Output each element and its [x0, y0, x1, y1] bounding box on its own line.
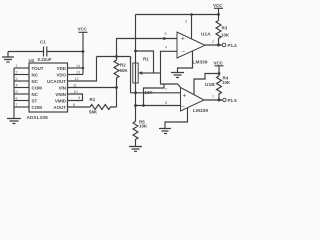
wire LM339 GND pin from U1A to ground: [178, 51, 193, 72]
wire AOUT pin 8 to R1: [68, 106, 91, 108]
svg-text:VDO: VDO: [56, 72, 66, 77]
svg-text:R2: R2: [120, 63, 126, 68]
node R4 / output junction: [218, 99, 221, 102]
op-amp U1B: [181, 82, 216, 113]
wire pin6 jog up-over to U1A minus rail: [144, 84, 165, 106]
wire rail corner down to pot R1 pot / down-col: [130, 57, 132, 64]
op-amp U1A: [177, 32, 211, 65]
capacitor C1: [38, 40, 52, 63]
wire R2 top up-over to pot line: [117, 39, 178, 57]
node R2 bottom junction: [115, 86, 118, 89]
U2 right pin stubs: [68, 68, 84, 101]
svg-text:U1B: U1B: [205, 82, 215, 87]
wire UCAOUT pin 12 up to R2 top rail: [68, 57, 97, 82]
node on U1A plus wire: [163, 37, 166, 40]
resistor R1 56K (horizontal): [89, 97, 117, 115]
svg-text:8: 8: [73, 103, 75, 107]
svg-text:NC: NC: [32, 92, 39, 97]
node R3 / output junction: [217, 44, 220, 47]
svg-text:COM: COM: [32, 85, 43, 90]
resistor R4 10K (vertical pull-up): [217, 76, 231, 101]
ground G2 below U2 left bus: [7, 119, 21, 124]
node pot top / wiper loop junction: [134, 50, 137, 53]
wire LM339 U1B VCC jog: [194, 74, 219, 95]
svg-text:NC: NC: [32, 79, 39, 84]
svg-text:R1: R1: [90, 97, 96, 102]
wire pot column (vertical x135.5 from rail to R5): [135, 15, 137, 122]
svg-text:U2: U2: [29, 58, 35, 63]
svg-text:AOUT: AOUT: [53, 105, 66, 110]
svg-text:10K: 10K: [221, 33, 230, 38]
terminal P1.5: [223, 98, 238, 103]
wire ground to C1: [8, 51, 44, 53]
svg-text:4: 4: [16, 84, 18, 88]
ground G3: [171, 73, 184, 78]
svg-text:COM: COM: [32, 105, 43, 110]
wire VCC to VDD pins: [82, 52, 84, 75]
svg-text:11: 11: [73, 84, 77, 88]
U2 left pin numbers: [16, 64, 18, 107]
node VDD pin junction: [82, 67, 84, 69]
svg-text:50K: 50K: [120, 68, 129, 73]
svg-text:5: 5: [16, 90, 18, 94]
ground G1 top-left: [2, 52, 14, 63]
potentiometer R1 (pot) body: [133, 57, 149, 84]
wire U1B output to P1.5: [204, 99, 223, 101]
power VCC symbol (left, above C1 wire): [78, 27, 88, 52]
power VCC symbol bottom right: [214, 61, 224, 77]
svg-text:1: 1: [212, 95, 214, 99]
svg-text:−: −: [181, 103, 185, 110]
svg-text:ST: ST: [32, 98, 38, 103]
svg-text:VMID: VMID: [55, 98, 67, 103]
wire LM339 VCC pin 3 to rail: [191, 15, 193, 39]
svg-text:1: 1: [16, 64, 18, 68]
wire LM339 GND pin from U1B to ground: [165, 108, 188, 128]
node VCC2 junction: [218, 72, 221, 75]
svg-text:4: 4: [165, 46, 167, 50]
wire pot column to U1B minus (pin 6): [136, 105, 181, 107]
svg-text:VCC: VCC: [78, 27, 88, 32]
svg-text:10K: 10K: [145, 90, 154, 95]
svg-text:UCAOUT: UCAOUT: [47, 79, 66, 84]
ground G5: [159, 129, 171, 134]
svg-text:P1.5: P1.5: [228, 98, 238, 103]
svg-text:VNIN: VNIN: [55, 92, 66, 97]
svg-text:9: 9: [78, 96, 80, 100]
node VCC rail / R3 junction: [217, 13, 220, 16]
svg-text:LM339: LM339: [193, 60, 208, 65]
resistor R3 10K (vertical pull-up): [216, 21, 230, 46]
potentiometer wiper arrow: [138, 71, 142, 74]
svg-text:R3: R3: [222, 26, 228, 31]
svg-text:VDD: VDD: [57, 66, 67, 71]
svg-text:LM339: LM339: [193, 108, 208, 113]
wire C1 to VCC node: [47, 51, 83, 53]
resistor R2 50K (vertical): [114, 57, 128, 88]
U2 right pin names: [47, 66, 67, 110]
svg-text:P1.4: P1.4: [228, 43, 238, 48]
svg-text:12: 12: [75, 77, 79, 81]
node VCC/C1 junction: [82, 50, 85, 53]
U2 left pin names: [32, 66, 44, 110]
svg-text:VCC: VCC: [214, 61, 224, 66]
svg-text:7: 7: [16, 103, 18, 107]
resistor R5 10K (vertical to ground): [133, 120, 148, 147]
wire left pin bus: [13, 68, 15, 118]
wire top rail VCC (y14.5): [136, 14, 219, 16]
wire R2 top rail (horizontal y56.5): [97, 56, 131, 58]
wire U1A output to P1.4: [205, 44, 222, 46]
IC U2 ADXL105 body: [27, 58, 68, 120]
svg-text:10: 10: [74, 90, 78, 94]
svg-text:−: −: [182, 49, 186, 56]
svg-text:3: 3: [185, 20, 187, 24]
svg-text:0.22uF: 0.22uF: [38, 57, 52, 62]
svg-text:VCC: VCC: [213, 3, 223, 8]
svg-text:14: 14: [76, 64, 80, 68]
node R2 top junction: [115, 55, 118, 58]
terminal P1.4: [222, 43, 237, 48]
svg-text:5: 5: [165, 32, 167, 36]
U2 right pin numbers: [73, 64, 80, 107]
svg-text:13: 13: [76, 71, 80, 75]
svg-text:10K: 10K: [222, 80, 231, 85]
svg-text:56K: 56K: [89, 110, 98, 115]
svg-text:ADXL105: ADXL105: [27, 115, 49, 120]
power VCC symbol top right: [213, 3, 223, 21]
U2 left pin stubs 1-7: [14, 68, 29, 107]
svg-text:2: 2: [212, 40, 214, 44]
svg-text:3: 3: [16, 77, 18, 81]
svg-text:7: 7: [165, 88, 167, 92]
ground G4: [129, 147, 142, 152]
svg-text:VIN: VIN: [59, 85, 66, 90]
svg-text:C1: C1: [40, 40, 46, 45]
svg-text:TOUT: TOUT: [32, 66, 44, 71]
wire wiper loop (top tap to wiper): [136, 51, 154, 73]
svg-text:NC: NC: [32, 72, 39, 77]
svg-text:6: 6: [16, 97, 18, 101]
svg-text:+: +: [183, 93, 187, 100]
svg-text:U1A: U1A: [201, 32, 211, 37]
svg-text:+: +: [181, 36, 185, 43]
wire VIN pin 11 to R2 bottom node: [68, 87, 117, 89]
wire R1 right end up to R2 bottom node: [116, 88, 118, 108]
svg-text:R1: R1: [143, 57, 149, 62]
svg-text:2: 2: [16, 71, 18, 75]
wire U1A minus staircase: [154, 72, 162, 74]
wire pot bottom node to U1B plus (pin 7): [131, 92, 181, 94]
svg-text:6: 6: [165, 101, 167, 105]
svg-text:10K: 10K: [139, 124, 148, 129]
